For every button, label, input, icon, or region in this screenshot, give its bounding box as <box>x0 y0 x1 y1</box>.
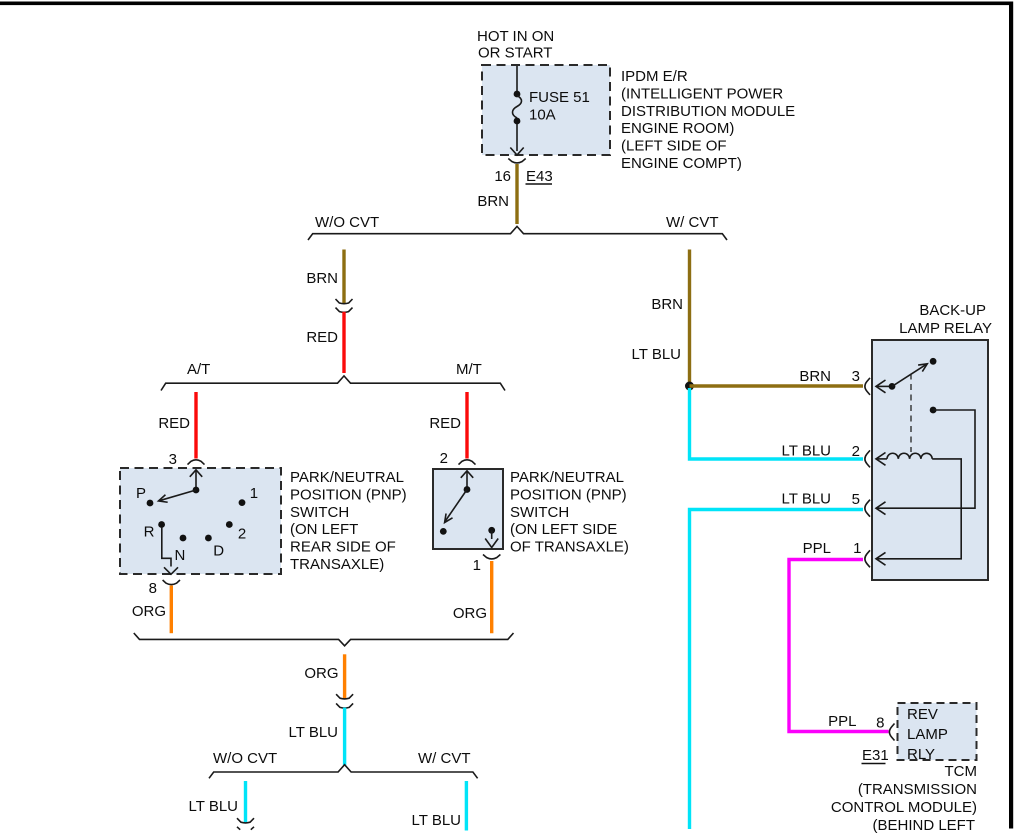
svg-text:BRN: BRN <box>799 368 831 385</box>
svg-text:FUSE 51: FUSE 51 <box>529 89 590 106</box>
svg-text:W/ CVT: W/ CVT <box>666 214 719 231</box>
svg-text:D: D <box>213 543 224 560</box>
connector pin 3 cup <box>188 460 205 465</box>
label TCM description <box>831 763 977 834</box>
svg-text:RED: RED <box>158 415 190 432</box>
svg-text:RLY: RLY <box>907 746 935 763</box>
connector pin 1 cup <box>483 555 500 559</box>
label PNP switch M/T description <box>510 469 629 556</box>
connector E43 pin 16 cup <box>508 159 525 163</box>
svg-text:LT BLU: LT BLU <box>189 798 238 815</box>
svg-text:8: 8 <box>149 580 157 597</box>
wire RED <box>342 312 345 373</box>
svg-text:3: 3 <box>852 368 860 385</box>
connector relay pin 3 cup <box>865 378 870 395</box>
relay coil pin 2 to pin 1 <box>876 453 961 566</box>
wire RED m/t branch <box>465 392 468 459</box>
svg-text:DISTRIBUTION MODULE: DISTRIBUTION MODULE <box>621 103 795 120</box>
connector relay pin 2 cup <box>865 450 870 467</box>
connector relay pin 5 cup <box>865 500 870 517</box>
relay pin 3 arrow <box>876 380 892 393</box>
svg-text:SWITCH: SWITCH <box>510 504 569 521</box>
svg-text:8: 8 <box>876 715 884 732</box>
svg-text:BRN: BRN <box>477 193 509 210</box>
svg-text:(INTELLIGENT POWER: (INTELLIGENT POWER <box>621 85 783 102</box>
wire BRN from fuse <box>515 164 518 224</box>
label BACK-UP LAMP RELAY <box>899 302 992 337</box>
svg-text:2: 2 <box>440 450 448 467</box>
node junction dot <box>685 382 694 391</box>
svg-text:M/T: M/T <box>456 361 482 378</box>
svg-text:(ON LEFT SIDE: (ON LEFT SIDE <box>510 521 617 538</box>
svg-text:2: 2 <box>852 443 860 460</box>
PNP switch A/T internals <box>136 470 258 575</box>
connector inline BRN/RED <box>336 299 353 312</box>
relay contact to pin 5 wiring <box>876 407 975 515</box>
wire fuse feed top <box>516 66 518 91</box>
svg-text:PPL: PPL <box>803 540 831 557</box>
svg-text:RED: RED <box>306 329 338 346</box>
connector pin 2 cup <box>459 460 476 465</box>
svg-text:OR START: OR START <box>478 45 552 62</box>
svg-text:BRN: BRN <box>651 296 683 313</box>
svg-text:POSITION (PNP): POSITION (PNP) <box>510 486 627 503</box>
svg-text:ENGINE ROOM): ENGINE ROOM) <box>621 120 734 137</box>
svg-text:P: P <box>136 485 146 502</box>
wire BRN w/ cvt branch <box>688 250 691 385</box>
svg-text:PARK/NEUTRAL: PARK/NEUTRAL <box>290 469 404 486</box>
svg-text:LT BLU: LT BLU <box>412 812 461 829</box>
wire BRN w/o cvt branch <box>342 250 345 304</box>
border frame top bar <box>0 2 1013 6</box>
relay switch <box>889 358 937 390</box>
fuse FUSE 51 10A <box>512 89 589 124</box>
wire PPL relay pin 1 to rev lamp rly <box>789 560 889 732</box>
label HOT IN ON OR START <box>477 28 554 62</box>
label pin 16 / E43 <box>494 168 552 185</box>
svg-text:POSITION (PNP): POSITION (PNP) <box>290 486 407 503</box>
svg-text:16: 16 <box>494 168 511 185</box>
svg-text:5: 5 <box>852 491 860 508</box>
svg-text:LT BLU: LT BLU <box>632 346 681 363</box>
connector pin 8 cup <box>163 580 180 585</box>
relay armature dashed link <box>910 374 912 453</box>
svg-text:N: N <box>175 547 186 564</box>
svg-text:LT BLU: LT BLU <box>782 491 831 508</box>
wire ORG a/t <box>170 586 173 634</box>
svg-text:LT BLU: LT BLU <box>782 443 831 460</box>
svg-text:REAR SIDE OF: REAR SIDE OF <box>290 539 396 556</box>
svg-text:BACK-UP: BACK-UP <box>919 302 986 319</box>
svg-text:REV: REV <box>907 706 938 723</box>
label REV LAMP RLY <box>907 706 948 763</box>
PNP switch A/T box <box>120 468 281 574</box>
svg-text:W/O CVT: W/O CVT <box>315 214 379 231</box>
svg-text:2: 2 <box>238 526 246 543</box>
svg-text:A/T: A/T <box>187 361 210 378</box>
wire ORG merged <box>343 654 346 698</box>
relay BACK-UP LAMP RELAY box <box>872 340 988 580</box>
svg-text:PARK/NEUTRAL: PARK/NEUTRAL <box>510 469 624 486</box>
brace split W/O CVT vs W/ CVT lower <box>209 765 478 779</box>
PNP switch M/T box <box>433 469 503 549</box>
svg-text:W/O CVT: W/O CVT <box>213 750 277 767</box>
svg-text:TRANSAXLE): TRANSAXLE) <box>290 556 384 573</box>
svg-text:LAMP RELAY: LAMP RELAY <box>899 320 992 337</box>
svg-text:CONTROL MODULE): CONTROL MODULE) <box>831 799 977 816</box>
wire fuse output with arrow <box>510 124 523 155</box>
brace merge A/T + M/T <box>134 633 514 646</box>
connector inline ORG/LT BLU <box>336 694 353 708</box>
svg-text:PPL: PPL <box>828 713 856 730</box>
svg-text:1: 1 <box>853 540 861 557</box>
label E31 <box>862 747 889 764</box>
wire ORG m/t <box>490 561 493 633</box>
svg-text:(ON LEFT: (ON LEFT <box>290 521 358 538</box>
svg-text:RED: RED <box>429 415 461 432</box>
wire LT BLU to relay pin 2 <box>690 388 864 459</box>
svg-text:R: R <box>144 524 155 541</box>
wire LT BLU w/o cvt <box>244 781 247 823</box>
label PPL pin 8 <box>828 713 884 732</box>
svg-text:E43: E43 <box>526 168 553 185</box>
svg-text:OF TRANSAXLE): OF TRANSAXLE) <box>510 539 629 556</box>
svg-text:TCM: TCM <box>945 763 978 780</box>
brace split A/T vs M/T <box>161 376 505 391</box>
wire LT BLU merged <box>343 708 346 766</box>
svg-text:ORG: ORG <box>453 605 487 622</box>
connector inline bottom left <box>237 818 254 830</box>
svg-text:BRN: BRN <box>306 270 338 287</box>
svg-text:1: 1 <box>473 557 481 574</box>
connector relay pin 1 cup <box>865 550 870 567</box>
svg-text:HOT IN ON: HOT IN ON <box>477 28 554 45</box>
svg-text:(LEFT SIDE OF: (LEFT SIDE OF <box>621 138 727 155</box>
brace split W/O CVT vs W/ CVT <box>308 226 727 240</box>
svg-text:IPDM E/R: IPDM E/R <box>621 68 688 85</box>
svg-text:LAMP: LAMP <box>907 726 948 743</box>
border frame right bar <box>1009 2 1013 829</box>
svg-text:SWITCH: SWITCH <box>290 504 349 521</box>
svg-text:LT BLU: LT BLU <box>289 724 338 741</box>
svg-text:ENGINE COMPT): ENGINE COMPT) <box>621 155 742 172</box>
wire BRN to relay pin 3 <box>690 384 864 387</box>
svg-text:ORG: ORG <box>304 665 338 682</box>
svg-text:ORG: ORG <box>132 603 166 620</box>
svg-text:10A: 10A <box>529 107 556 124</box>
svg-text:W/ CVT: W/ CVT <box>418 750 471 767</box>
IPDM E/R fuse block box <box>482 65 610 155</box>
wire LT BLU relay pin 5 down to TCM <box>690 510 864 830</box>
svg-text:(BEHIND LEFT: (BEHIND LEFT <box>872 817 975 834</box>
svg-text:(TRANSMISSION: (TRANSMISSION <box>858 781 977 798</box>
svg-text:1: 1 <box>250 485 258 502</box>
label PNP switch A/T description <box>290 469 407 573</box>
svg-text:E31: E31 <box>862 747 889 764</box>
connector REV LAMP RLY pin 8 cup <box>889 724 894 741</box>
PNP switch M/T internals <box>440 471 498 548</box>
label IPDM E/R description <box>621 68 795 172</box>
wire LT BLU w/ cvt <box>465 781 468 831</box>
wire RED a/t branch <box>194 392 197 459</box>
relay REV LAMP RLY box <box>898 703 977 760</box>
svg-text:3: 3 <box>169 451 177 468</box>
